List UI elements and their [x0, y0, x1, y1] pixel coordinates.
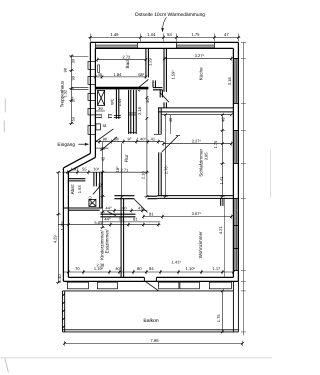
svg-text:98: 98	[63, 68, 67, 72]
svg-text:Eingang: Eingang	[57, 142, 75, 148]
svg-text:1.91: 1.91	[71, 166, 80, 171]
svg-text:40⁵: 40⁵	[115, 266, 121, 271]
svg-text:44⁰: 44⁰	[105, 205, 111, 210]
svg-text:Ostseite 10cm Wärmedämmung: Ostseite 10cm Wärmedämmung	[135, 12, 205, 18]
svg-text:1.49: 1.49	[110, 32, 119, 37]
svg-text:9⁰: 9⁰	[127, 137, 131, 142]
svg-text:58: 58	[114, 137, 119, 142]
svg-text:45: 45	[98, 72, 103, 77]
svg-text:81: 81	[149, 212, 154, 217]
svg-text:18⁰: 18⁰	[115, 166, 120, 172]
svg-text:80: 80	[137, 266, 142, 271]
svg-text:46: 46	[168, 117, 173, 122]
svg-text:1.10⁵: 1.10⁵	[186, 266, 196, 271]
svg-text:Kinderzimmer/: Kinderzimmer/	[99, 230, 104, 260]
svg-text:1.02: 1.02	[117, 98, 122, 107]
svg-text:3.67⁵: 3.67⁵	[192, 211, 202, 216]
svg-text:1.02: 1.02	[63, 90, 67, 97]
svg-text:90: 90	[145, 98, 150, 103]
svg-text:Flur: Flur	[124, 154, 129, 162]
svg-text:45: 45	[100, 156, 105, 161]
svg-text:1.40: 1.40	[57, 274, 62, 283]
svg-text:47: 47	[224, 32, 229, 37]
svg-text:1.41⁵: 1.41⁵	[172, 259, 182, 264]
svg-text:90: 90	[71, 76, 75, 80]
svg-text:Wohnzimmer: Wohnzimmer	[198, 231, 203, 258]
svg-text:38: 38	[102, 124, 106, 128]
svg-text:WC: WC	[109, 98, 114, 105]
svg-text:1.17: 1.17	[213, 266, 222, 271]
svg-text:41: 41	[138, 205, 143, 210]
svg-text:41: 41	[151, 137, 156, 142]
svg-text:1.40⁵: 1.40⁵	[137, 137, 147, 142]
svg-text:44⁰: 44⁰	[104, 217, 110, 222]
svg-text:1.75: 1.75	[191, 32, 200, 37]
svg-text:1.93: 1.93	[77, 185, 82, 194]
svg-text:Küche: Küche	[198, 67, 203, 80]
svg-text:1.19³: 1.19³	[94, 266, 104, 271]
svg-text:53: 53	[119, 217, 124, 222]
svg-text:53: 53	[71, 117, 75, 121]
svg-text:3.18: 3.18	[227, 77, 232, 86]
svg-text:2.71: 2.71	[121, 167, 130, 172]
svg-text:1.29: 1.29	[147, 57, 152, 66]
svg-text:55: 55	[82, 166, 87, 171]
svg-text:81: 81	[133, 217, 138, 222]
svg-text:1.10: 1.10	[87, 196, 92, 205]
svg-text:53: 53	[167, 32, 172, 37]
svg-text:2.76: 2.76	[163, 166, 168, 175]
svg-text:30: 30	[71, 59, 75, 63]
svg-text:1.41: 1.41	[219, 176, 224, 185]
svg-text:Abst:: Abst:	[70, 184, 75, 194]
svg-text:1.84: 1.84	[114, 72, 123, 77]
svg-text:1.40²: 1.40²	[60, 221, 65, 231]
svg-text:4.21: 4.21	[218, 226, 223, 235]
svg-text:10⁵: 10⁵	[93, 166, 99, 171]
svg-text:70: 70	[75, 266, 80, 271]
svg-text:1.04: 1.04	[147, 32, 156, 37]
svg-text:48: 48	[220, 117, 225, 122]
svg-text:Esszimmer/: Esszimmer/	[104, 229, 109, 254]
svg-text:2.18: 2.18	[137, 106, 142, 115]
svg-text:75: 75	[97, 183, 102, 188]
svg-text:1.75: 1.75	[216, 314, 221, 323]
svg-text:4.29: 4.29	[52, 235, 57, 244]
svg-text:84: 84	[149, 266, 154, 271]
svg-text:17⁵: 17⁵	[71, 96, 75, 102]
svg-text:2.73: 2.73	[123, 55, 132, 60]
svg-text:5.61: 5.61	[95, 220, 104, 225]
svg-text:68⁵: 68⁵	[138, 72, 144, 77]
svg-text:3.27⁵: 3.27⁵	[195, 53, 205, 58]
svg-text:39: 39	[98, 106, 103, 111]
svg-text:41: 41	[136, 87, 141, 92]
svg-text:3.85: 3.85	[203, 152, 208, 161]
svg-text:90: 90	[103, 137, 108, 142]
svg-text:7.96: 7.96	[150, 338, 159, 343]
svg-text:Bad: Bad	[125, 60, 130, 69]
svg-text:Balkon: Balkon	[143, 318, 159, 324]
svg-text:3.27⁵: 3.27⁵	[192, 139, 202, 144]
svg-text:1.59⁵: 1.59⁵	[170, 70, 175, 80]
svg-text:1.75: 1.75	[213, 140, 218, 149]
svg-text:90: 90	[122, 205, 127, 210]
svg-text:2.10: 2.10	[140, 171, 145, 180]
svg-text:45: 45	[100, 146, 105, 151]
